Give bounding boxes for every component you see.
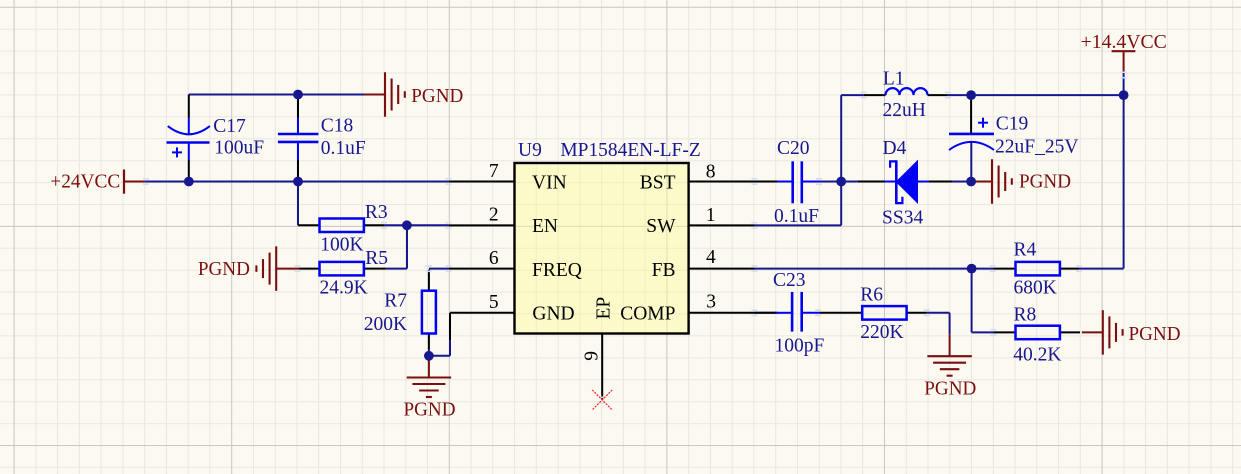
svg-text:VIN: VIN (532, 173, 567, 194)
svg-text:200K: 200K (364, 314, 407, 335)
svg-text:9: 9 (581, 351, 602, 361)
svg-text:3: 3 (706, 292, 716, 313)
svg-text:FB: FB (652, 260, 676, 281)
svg-text:220K: 220K (860, 322, 903, 343)
svg-text:D4: D4 (883, 138, 907, 159)
svg-text:FREQ: FREQ (532, 260, 582, 281)
svg-text:R8: R8 (1014, 305, 1037, 326)
svg-text:8: 8 (706, 161, 716, 182)
svg-text:100uF: 100uF (214, 138, 264, 159)
svg-text:C19: C19 (996, 114, 1029, 135)
svg-text:40.2K: 40.2K (1013, 344, 1061, 365)
svg-text:PGND: PGND (1129, 324, 1181, 345)
svg-text:EN: EN (532, 216, 558, 237)
svg-text:+24VCC: +24VCC (50, 171, 120, 192)
svg-text:R7: R7 (384, 290, 407, 311)
svg-text:4: 4 (706, 247, 716, 268)
svg-text:PGND: PGND (1019, 172, 1071, 193)
svg-text:2: 2 (489, 205, 499, 226)
svg-text:GND: GND (532, 304, 574, 325)
svg-text:EP: EP (594, 297, 615, 320)
svg-text:C23: C23 (773, 270, 806, 291)
svg-text:C18: C18 (321, 116, 354, 137)
svg-text:22uH: 22uH (883, 100, 926, 121)
svg-text:MP1584EN-LF-Z: MP1584EN-LF-Z (560, 140, 700, 161)
svg-text:U9: U9 (518, 140, 542, 161)
svg-text:BST: BST (640, 173, 676, 194)
svg-text:R6: R6 (860, 284, 883, 305)
svg-text:PGND: PGND (198, 259, 250, 280)
svg-text:0.1uF: 0.1uF (774, 206, 819, 227)
svg-text:5: 5 (489, 292, 499, 313)
svg-text:PGND: PGND (404, 400, 456, 421)
svg-text:0.1uF: 0.1uF (321, 138, 366, 159)
svg-text:100pF: 100pF (775, 335, 825, 356)
svg-text:C20: C20 (777, 138, 810, 159)
svg-text:680K: 680K (1014, 278, 1057, 299)
svg-text:COMP: COMP (620, 304, 675, 325)
svg-text:R3: R3 (365, 202, 388, 223)
svg-text:PGND: PGND (411, 86, 463, 107)
svg-text:SW: SW (646, 216, 676, 237)
svg-text:22uF_25V: 22uF_25V (995, 136, 1078, 157)
svg-text:R4: R4 (1014, 239, 1037, 260)
svg-text:SS34: SS34 (882, 208, 923, 229)
svg-text:100K: 100K (320, 235, 363, 256)
svg-text:24.9K: 24.9K (320, 277, 368, 298)
svg-text:+14.4VCC: +14.4VCC (1081, 32, 1167, 53)
svg-text:PGND: PGND (924, 379, 976, 400)
svg-text:L1: L1 (883, 68, 905, 89)
svg-text:R5: R5 (365, 248, 388, 269)
svg-text:6: 6 (489, 248, 499, 269)
svg-text:7: 7 (489, 161, 499, 182)
svg-text:C17: C17 (213, 116, 246, 137)
svg-text:1: 1 (706, 205, 716, 226)
